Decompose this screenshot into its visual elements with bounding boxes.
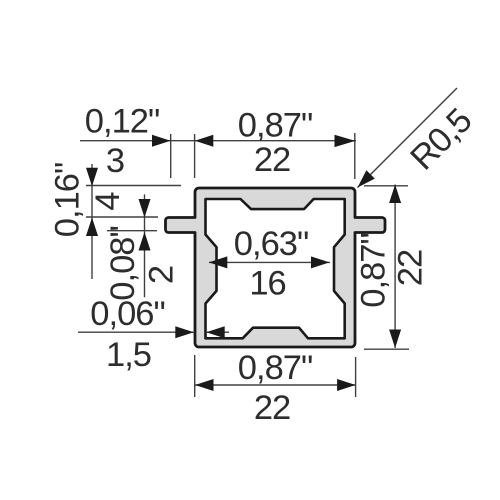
svg-text:22: 22 <box>254 141 290 179</box>
svg-text:22: 22 <box>392 250 430 286</box>
svg-text:R0,5: R0,5 <box>403 102 479 178</box>
svg-text:22: 22 <box>254 389 290 427</box>
svg-text:0,16": 0,16" <box>48 163 86 237</box>
svg-text:0,87": 0,87" <box>238 107 312 145</box>
svg-text:2: 2 <box>143 266 181 284</box>
svg-text:0,87": 0,87" <box>355 233 393 307</box>
svg-text:0,87": 0,87" <box>238 349 312 387</box>
svg-text:16: 16 <box>249 264 285 302</box>
svg-text:1,5: 1,5 <box>106 336 151 374</box>
svg-text:4: 4 <box>89 192 127 211</box>
svg-text:0,08": 0,08" <box>104 226 142 300</box>
svg-text:0,63": 0,63" <box>234 225 308 263</box>
svg-text:0,12": 0,12" <box>85 103 159 141</box>
svg-text:3: 3 <box>106 142 124 180</box>
